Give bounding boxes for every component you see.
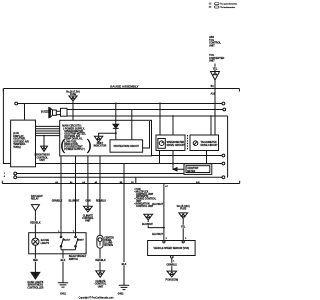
svg-text:BLU/WHT: BLU/WHT <box>142 224 153 226</box>
svg-text:To speedometer: To speedometer <box>220 3 237 6</box>
svg-text:CONTROL: CONTROL <box>95 284 107 286</box>
svg-text:NATION: NATION <box>104 244 113 247</box>
svg-text:BRIGHTNESS: BRIGHTNESS <box>28 285 44 287</box>
svg-text:ODO/TRIP: ODO/TRIP <box>187 168 199 170</box>
svg-text:VEHICLE SPEED SENSOR (VSS): VEHICLE SPEED SENSOR (VSS) <box>154 248 190 250</box>
svg-text:CONTROL UNIT: CONTROL UNIT <box>136 206 154 208</box>
svg-text:A16: A16 <box>211 93 216 96</box>
svg-text:YEL: YEL <box>181 227 186 229</box>
svg-text:BLU/WHT: BLU/WHT <box>152 234 163 236</box>
svg-text:GRN/BLK: GRN/BLK <box>52 200 63 202</box>
svg-text:SELECT: SELECT <box>63 240 72 242</box>
svg-text:No.26 (7.5A): No.26 (7.5A) <box>66 91 80 94</box>
svg-text:DAYLIGHT: DAYLIGHT <box>31 195 43 198</box>
svg-text:Copyright © ProCarManuals.com: Copyright © ProCarManuals.com <box>78 296 113 299</box>
svg-text:PCM (ECM): PCM (ECM) <box>166 280 179 282</box>
svg-text:A7: A7 <box>165 185 168 188</box>
svg-text:FUSE: FUSE <box>180 208 187 210</box>
svg-text:UNIT: UNIT <box>209 44 215 47</box>
svg-text:YEL: YEL <box>213 69 218 71</box>
svg-text:B1: B1 <box>211 85 215 88</box>
svg-text:CONTROL: CONTROL <box>36 157 48 159</box>
svg-text:LIGHTS: LIGHTS <box>41 243 50 245</box>
svg-text:SWITCH: SWITCH <box>69 259 79 261</box>
svg-text:INDICATOR: INDICATOR <box>94 145 107 148</box>
svg-text:RESET: RESET <box>77 240 84 242</box>
svg-text:RELAY: RELAY <box>31 197 39 200</box>
svg-text:BLU/WHT: BLU/WHT <box>69 200 80 202</box>
svg-text:1: 1 <box>4 173 6 175</box>
svg-text:DASH LIGHTS: DASH LIGHTS <box>28 281 44 284</box>
svg-text:CLIMATE: CLIMATE <box>83 214 94 217</box>
svg-text:TURE): TURE) <box>13 146 21 149</box>
svg-text:BUZZER: BUZZER <box>41 111 51 114</box>
svg-text:G402: G402 <box>118 293 124 296</box>
svg-text:RED/BLK: RED/BLK <box>95 260 106 262</box>
svg-text:UNIT: UNIT <box>39 160 45 162</box>
svg-text:FUSE: FUSE <box>70 94 77 96</box>
svg-text:BRIGHTNESS: BRIGHTNESS <box>35 155 51 157</box>
svg-text:BLK: BLK <box>122 264 127 266</box>
svg-text:BLK: BLK <box>61 260 66 262</box>
svg-text:PROTECTION CIRCUIT: PROTECTION CIRCUIT <box>114 146 140 148</box>
svg-text:ORN/BLU: ORN/BLU <box>166 265 177 267</box>
svg-text:GAUGE: GAUGE <box>41 239 50 242</box>
svg-text:CLIMATE: CLIMATE <box>95 280 106 283</box>
svg-text:G401: G401 <box>60 292 66 295</box>
svg-text:1: 1 <box>173 260 175 262</box>
svg-text:RED/BLK: RED/BLK <box>96 200 107 202</box>
svg-text:POWER SUPPLY ): POWER SUPPLY ) <box>64 148 85 151</box>
svg-text:No.15 (10A): No.15 (10A) <box>177 205 190 208</box>
svg-text:GAUGE ASSEMBLY: GAUGE ASSEMBLY <box>110 84 139 88</box>
svg-text:To tachometer: To tachometer <box>220 6 235 9</box>
svg-text:CONTROLLER: CONTROLLER <box>27 287 43 289</box>
svg-text:TACHOMETER: TACHOMETER <box>201 141 217 144</box>
svg-text:METER: METER <box>187 171 195 173</box>
svg-text:4: 4 <box>4 175 6 178</box>
svg-text:RED/BLK: RED/BLK <box>30 223 41 225</box>
svg-text:UNIT: UNIT <box>209 60 215 63</box>
svg-text:UNIT: UNIT <box>85 221 91 223</box>
svg-text:(: ( <box>60 137 65 154</box>
svg-text:2: 2 <box>166 238 168 240</box>
svg-text:UNIT: UNIT <box>98 286 104 288</box>
svg-text:BLU/WHT: BLU/WHT <box>152 204 163 206</box>
svg-text:DRIVE CIRCUIT: DRIVE CIRCUIT <box>167 144 186 147</box>
svg-text:3: 3 <box>185 238 187 240</box>
svg-text:): ) <box>87 137 92 154</box>
svg-text:DRIVE CIRCUIT: DRIVE CIRCUIT <box>201 145 219 147</box>
svg-text:ORN: ORN <box>85 200 90 202</box>
svg-text:RED: RED <box>33 260 38 262</box>
